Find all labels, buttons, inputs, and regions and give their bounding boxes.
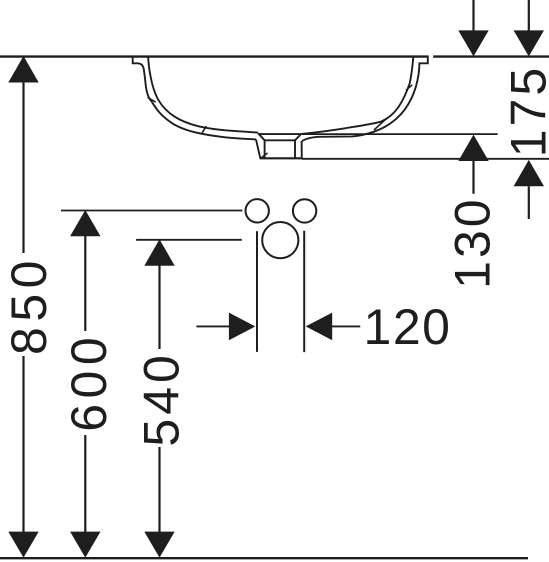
svg-text:175: 175	[501, 65, 549, 157]
wall tick left upper	[148, 97, 156, 102]
extension line bowl bottom (130 dim)	[302, 133, 498, 135]
drain bottom	[260, 157, 302, 159]
dim 130 shafts	[472, 0, 474, 194]
arrowhead 850 bottom (down)	[8, 532, 38, 558]
basin outer wall left	[133, 56, 256, 140]
dim 600 shaft	[84, 236, 86, 533]
drain inner wall left	[264, 140, 266, 158]
drain corner tick	[260, 153, 267, 159]
svg-text:540: 540	[134, 351, 190, 446]
dim 540 shaft	[158, 266, 160, 533]
extension line drain bottom (175 dim)	[302, 158, 549, 160]
arrowhead 130 top (down, above counter)	[458, 30, 488, 56]
arrowhead 175 top (down, above counter)	[514, 30, 544, 56]
drain outer wall right	[301, 141, 303, 158]
drain outer wall left	[256, 139, 260, 158]
dim 850 shaft	[22, 83, 24, 533]
arrowhead 120 left (right-pointing)	[229, 313, 256, 341]
arrowhead 850 top (up)	[8, 56, 38, 83]
arrowhead 130 bottom (up, below ext line)	[458, 135, 488, 161]
ref line 600 (small holes center)	[61, 210, 242, 212]
arrowhead 600 top (up)	[70, 210, 100, 236]
ref line 540 (large hole center)	[136, 239, 242, 241]
arrowhead 540 top (up)	[144, 239, 174, 265]
basin outer wall right	[302, 56, 428, 142]
drain inner wall right	[294, 140, 296, 158]
wall tick left lower	[202, 126, 207, 134]
drain chamfer right	[295, 134, 301, 141]
basin inner wall left	[148, 56, 258, 133]
faucet hole large center	[262, 222, 298, 258]
dim 175 shafts	[528, 0, 530, 219]
dim 120 shafts	[196, 325, 360, 327]
hole extension vertical right	[303, 231, 305, 352]
arrowhead 175 bottom (up, below drain line)	[514, 160, 544, 186]
arrowhead 600 bottom (down)	[70, 532, 100, 558]
arrowhead 540 bottom (down)	[144, 532, 174, 558]
drain chamfer left	[258, 133, 264, 140]
svg-text:120: 120	[364, 299, 452, 355]
arrowhead 120 right (left-pointing)	[306, 313, 333, 341]
drain opening top line	[258, 133, 301, 135]
hole extension vertical left	[256, 231, 258, 352]
wall tick right upper	[406, 85, 412, 90]
counter top line	[0, 55, 549, 57]
faucet hole small right	[293, 199, 316, 222]
basin inner wall right	[301, 56, 413, 134]
drain shelf line	[265, 139, 295, 141]
svg-text:600: 600	[61, 332, 117, 432]
wall tick right lower	[374, 119, 387, 131]
svg-text:850: 850	[1, 255, 57, 355]
svg-text:130: 130	[444, 196, 500, 288]
faucet hole small left	[246, 199, 269, 222]
floor line	[0, 557, 528, 559]
